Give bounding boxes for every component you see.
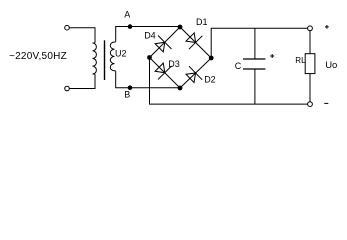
node B xyxy=(128,85,133,90)
bridge node left xyxy=(147,55,152,60)
bridge edge bottom-left (D3 branch) xyxy=(150,58,181,89)
diode D1 xyxy=(186,17,208,49)
capacitor C top lead xyxy=(254,28,256,59)
wire top-left to transformer primary xyxy=(69,28,95,43)
diode D4 xyxy=(144,30,171,52)
terminal + output xyxy=(308,26,313,31)
bridge node right xyxy=(209,56,214,61)
wire bottom-left to transformer primary xyxy=(69,74,95,88)
transformer core xyxy=(104,40,106,80)
resistor RL body xyxy=(305,54,315,74)
bridge edge bottom-right (D2 branch) xyxy=(180,58,211,88)
node A xyxy=(128,24,133,29)
resistor RL lead top xyxy=(309,31,311,54)
label + output xyxy=(325,25,329,29)
svg-text:A: A xyxy=(124,10,130,20)
resistor RL lead bottom xyxy=(309,74,311,102)
svg-text:D3: D3 xyxy=(168,59,180,69)
capacitor polarity + xyxy=(270,54,274,58)
svg-text:D2: D2 xyxy=(204,75,216,85)
wire secondary top to node A to bridge top xyxy=(116,27,180,42)
svg-text:C: C xyxy=(235,61,242,71)
svg-text:D1: D1 xyxy=(196,17,208,27)
bridge edge top-right (D1 branch) xyxy=(180,27,211,58)
transformer U2 secondary winding xyxy=(110,41,115,71)
bridge node bottom xyxy=(178,86,183,91)
svg-text:Uo: Uo xyxy=(325,60,337,71)
svg-text:RL: RL xyxy=(295,56,306,65)
diode D3 xyxy=(155,59,180,80)
label - output xyxy=(324,102,328,104)
svg-text:~220V,50HZ: ~220V,50HZ xyxy=(9,51,67,62)
transformer U2 primary winding xyxy=(93,42,97,74)
capacitor C bottom lead xyxy=(254,69,256,104)
terminal top-left xyxy=(65,25,70,30)
capacitor C plates xyxy=(243,58,265,60)
bridge edge top-left (D4 branch) xyxy=(150,27,181,58)
wire secondary bottom to node B to bridge bottom xyxy=(116,72,180,88)
diode D2 xyxy=(186,66,216,85)
svg-text:B: B xyxy=(124,90,130,100)
svg-text:U2: U2 xyxy=(115,49,127,59)
wire bridge left down to - rail xyxy=(150,58,308,105)
bridge node top xyxy=(178,25,183,30)
svg-text:D4: D4 xyxy=(144,30,156,40)
wire bridge right to + rail xyxy=(211,28,307,58)
terminal bottom-left xyxy=(65,86,70,91)
terminal - output xyxy=(308,102,313,107)
